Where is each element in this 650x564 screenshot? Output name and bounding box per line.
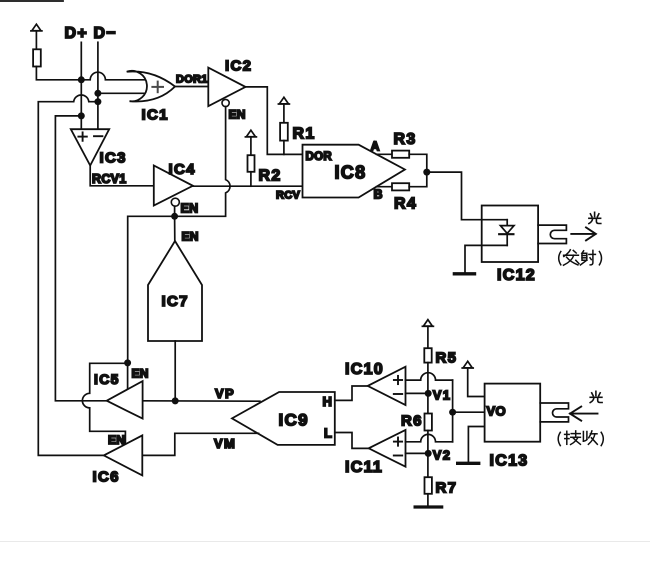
wire IC4 EN stub to EN bus [174,206,176,216]
ic IC9 (decoder) [232,392,335,445]
comparator IC10 [368,367,406,405]
wire A: hop over D- then to IC1 input 1 [81,72,145,80]
wire EN chain from IC2 bubble: down, hop over RCV wire, left to EN bus [128,107,230,363]
wire VM (IC6 input to IC9) [142,433,258,455]
svg-text:EN: EN [108,433,125,447]
ground (IC12) [454,272,474,275]
node EN corner dot at IC5 [124,359,131,366]
power symbol VCC1 (top-left) [31,24,42,49]
fiber port of IC12 [538,225,566,243]
svg-text:IC9: IC9 [279,411,309,430]
comparator IC3 [71,129,109,165]
opto receiver IC13 box [485,384,541,442]
minus sign inside IC10 [394,393,402,395]
svg-text:VM: VM [214,436,236,451]
node junction dot (D+ / wire D) [78,112,85,119]
top edge artifact line [0,0,63,2]
svg-text:IC5: IC5 [94,371,120,387]
svg-text:B: B [374,188,384,202]
opto emitter IC12 box [482,206,538,263]
ic IC7 (enable logic) [148,241,202,341]
wire H (IC9 to IC10 output tip) [335,386,368,400]
svg-text:R5: R5 [436,350,458,367]
wire IC13 to ground [468,427,484,462]
plus sign inside IC1 [152,82,163,93]
svg-text:IC1: IC1 [142,107,169,124]
wire VO node to IC13 [453,411,485,413]
svg-text:DOR: DOR [306,151,333,163]
minus sign inside IC3 [94,135,102,137]
wire junction to IC12 LED anode [427,172,507,220]
wire IC2 output to DOR input of IC8 [246,87,303,154]
wire IC7 bottom to VP node [174,341,176,401]
power symbol for R2 [245,130,256,155]
svg-text:RCV1: RCV1 [92,172,127,186]
wire IC10 plus input with hop over rail [406,373,453,380]
svg-text:IC2: IC2 [225,58,252,75]
svg-text:L: L [324,426,333,441]
wire DOR1 (IC1 output to IC2 input) [175,86,208,88]
power symbol for R5 [422,320,433,349]
enable bubble IC4 [171,198,179,206]
wire R1 to DOR wire [283,141,285,155]
fiber port of IC13 [540,403,568,422]
wire VP (IC5 input line to IC9) [143,400,260,402]
svg-text:DOR1: DOR1 [176,74,208,86]
ground (IC13) [458,462,479,465]
plus sign inside IC10 [394,376,402,384]
svg-text:IC4: IC4 [169,161,196,178]
node VP junction dot (IC7 line) [172,397,179,404]
svg-text:V1: V1 [433,388,452,403]
node V2 dot [425,450,432,457]
resistor R6 [425,414,432,431]
svg-text:H: H [323,394,334,409]
wire RCV (IC4 output to IC8 RCV input) [193,185,303,187]
wire R7 to ground [427,494,429,506]
svg-text:IC7: IC7 [162,293,189,310]
ground (R7) [415,505,442,508]
svg-text:D−: D− [94,25,118,42]
svg-text:R4: R4 [394,196,417,213]
wire L (IC9 to IC11 output tip) [335,433,369,449]
label (jie shou) receive [558,431,603,446]
wire R6 to V2 [427,431,429,454]
enable bubble IC2 [222,99,229,106]
comparator IC11 [369,430,406,467]
wire C: from D- node left, hop over D+, down left bus to IC6 output [38,95,104,455]
resistor R5 [424,348,431,362]
wire V1 to R6 [427,393,429,413]
svg-text:VP: VP [215,386,235,401]
svg-text:V2: V2 [433,448,452,463]
wire vertical connector VO side [452,380,454,442]
wire R2 to RCV wire [250,172,252,186]
wire IC11 plus input with hop over rail [406,434,453,441]
wire IC11 minus to V2 [406,452,429,454]
node A junction dot (D+ / wire A) [78,76,85,83]
wire D- vertical [97,42,99,129]
hanzi light (receive side) [590,391,602,402]
power symbol for IC13 [462,361,484,396]
node junction dot (D- / wire B) [94,90,101,97]
wire B output through R4 [377,186,393,188]
label (fa she) emit [559,250,602,265]
led diode inside IC12 [499,220,514,246]
wire RCV1 (IC3 output to IC4 input) [90,166,154,186]
wire D+ vertical [80,42,82,129]
resistor R3 [392,151,409,158]
light arrow in (receive) [570,407,598,421]
svg-text:IC13: IC13 [490,453,529,470]
svg-text:D+: D+ [65,25,89,42]
buffer IC4 [154,166,193,206]
svg-text:IC11: IC11 [345,459,383,476]
node V1 dot [425,390,432,397]
svg-text:EN: EN [181,202,199,216]
or-gate IC1 [127,71,175,102]
svg-text:A: A [371,140,381,154]
wire D: from D+ node left, down bus to IC5 output [55,116,106,401]
wire V2 to R7 [427,453,429,477]
buffer IC6 [104,435,143,475]
wire IC5 EN entry [127,363,129,389]
wire R4 to junction [409,172,427,187]
node VO junction dot [449,409,456,416]
svg-text:R2: R2 [259,168,282,185]
plus sign inside IC11 [394,438,402,446]
svg-text:IC8: IC8 [335,163,367,183]
ic IC8 (driver) [303,145,405,198]
buffer IC2 [208,68,245,107]
minus sign inside IC11 [394,455,402,457]
power symbol for R1 [278,97,289,123]
svg-text:EN: EN [229,108,246,122]
wire from resistor to node A [36,67,81,80]
wire R5 to V1 [427,363,429,394]
svg-text:R6: R6 [401,413,423,430]
svg-text:IC10: IC10 [345,361,384,378]
svg-text:RCV: RCV [276,190,300,202]
svg-text:R7: R7 [436,480,458,497]
resistor R7 [425,477,432,494]
resistor R2 [248,155,255,172]
node EN junction dot (IC4/IC7 EN) [171,213,178,220]
svg-text:EN: EN [132,367,149,381]
light arrow out (emit) [571,227,596,240]
wire IC10 minus to V1 [406,392,429,394]
resistor R4 [392,183,409,190]
buffer IC5 [107,381,143,419]
wire B: D- node to IC1 input 2 [98,92,145,94]
svg-text:EN: EN [182,230,199,244]
faint separator line [0,541,650,543]
wire A output through R3 [377,153,393,155]
node junction dot (D- / wire C) [94,98,101,105]
node junction dot (R3/R4 output) [423,169,430,176]
resistor (unlabeled, top-left) [33,49,41,66]
wire R3 to junction [409,154,427,172]
svg-text:IC12: IC12 [497,267,536,284]
svg-text:VO: VO [487,404,506,419]
svg-text:IC3: IC3 [100,150,127,167]
svg-text:IC6: IC6 [93,469,120,486]
wire EN bus dot to IC7 tip [174,216,176,241]
plus sign inside IC3 [78,132,86,140]
svg-text:R3: R3 [394,131,417,148]
resistor R1 [280,123,288,141]
svg-text:R1: R1 [293,126,316,143]
wire LED cathode to ground [465,245,507,272]
wire EN chain IC5 to IC6: left, down with hop over IC5 output, to IC6 [82,363,127,444]
hanzi light (emit side) [589,212,601,223]
